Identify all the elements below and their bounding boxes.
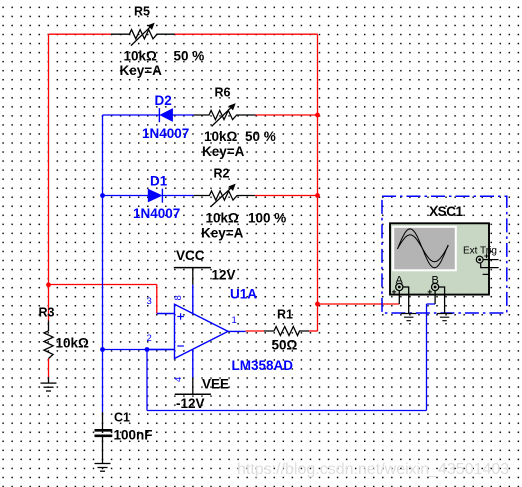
svg-text:10kΩ: 10kΩ <box>56 336 90 351</box>
svg-text:1N4007: 1N4007 <box>142 126 189 141</box>
svg-text:100nF: 100nF <box>114 428 153 443</box>
svg-text:R6: R6 <box>215 86 231 100</box>
svg-text:R5: R5 <box>134 5 150 19</box>
svg-text:10kΩ: 10kΩ <box>204 129 238 144</box>
svg-text:12V: 12V <box>212 268 236 283</box>
svg-text:VEE: VEE <box>202 377 229 392</box>
svg-text:8: 8 <box>173 295 184 300</box>
svg-text:XSC1: XSC1 <box>429 204 464 219</box>
svg-text:U1A: U1A <box>230 287 257 302</box>
svg-text:100 %: 100 % <box>248 211 286 226</box>
svg-text:10kΩ: 10kΩ <box>124 49 158 64</box>
svg-text:2: 2 <box>147 333 152 344</box>
svg-text:1N4007: 1N4007 <box>133 206 180 221</box>
svg-text:LM358AD: LM358AD <box>232 358 294 373</box>
svg-text:50 %: 50 % <box>245 129 276 144</box>
svg-text:1: 1 <box>232 315 237 326</box>
svg-text:https://blog.csdn.net/weixin_4: https://blog.csdn.net/weixin_43501403 <box>237 461 509 478</box>
svg-text:-12V: -12V <box>176 396 205 411</box>
svg-text:Key=A: Key=A <box>201 226 244 241</box>
svg-text:VCC: VCC <box>176 248 205 263</box>
svg-text:R1: R1 <box>277 308 293 322</box>
svg-text:R2: R2 <box>214 167 230 181</box>
svg-text:C1: C1 <box>114 411 130 425</box>
svg-text:Key=A: Key=A <box>120 63 163 78</box>
svg-text:D1: D1 <box>150 174 168 189</box>
svg-text:3: 3 <box>147 296 152 307</box>
svg-text:50 %: 50 % <box>174 49 205 64</box>
svg-text:D2: D2 <box>155 93 172 108</box>
svg-text:4: 4 <box>173 377 184 382</box>
svg-text:50Ω: 50Ω <box>272 338 298 353</box>
svg-text:10kΩ: 10kΩ <box>206 211 240 226</box>
svg-text:R3: R3 <box>39 306 55 320</box>
svg-text:Ext Trig: Ext Trig <box>463 246 497 257</box>
svg-text:Key=A: Key=A <box>202 144 245 159</box>
